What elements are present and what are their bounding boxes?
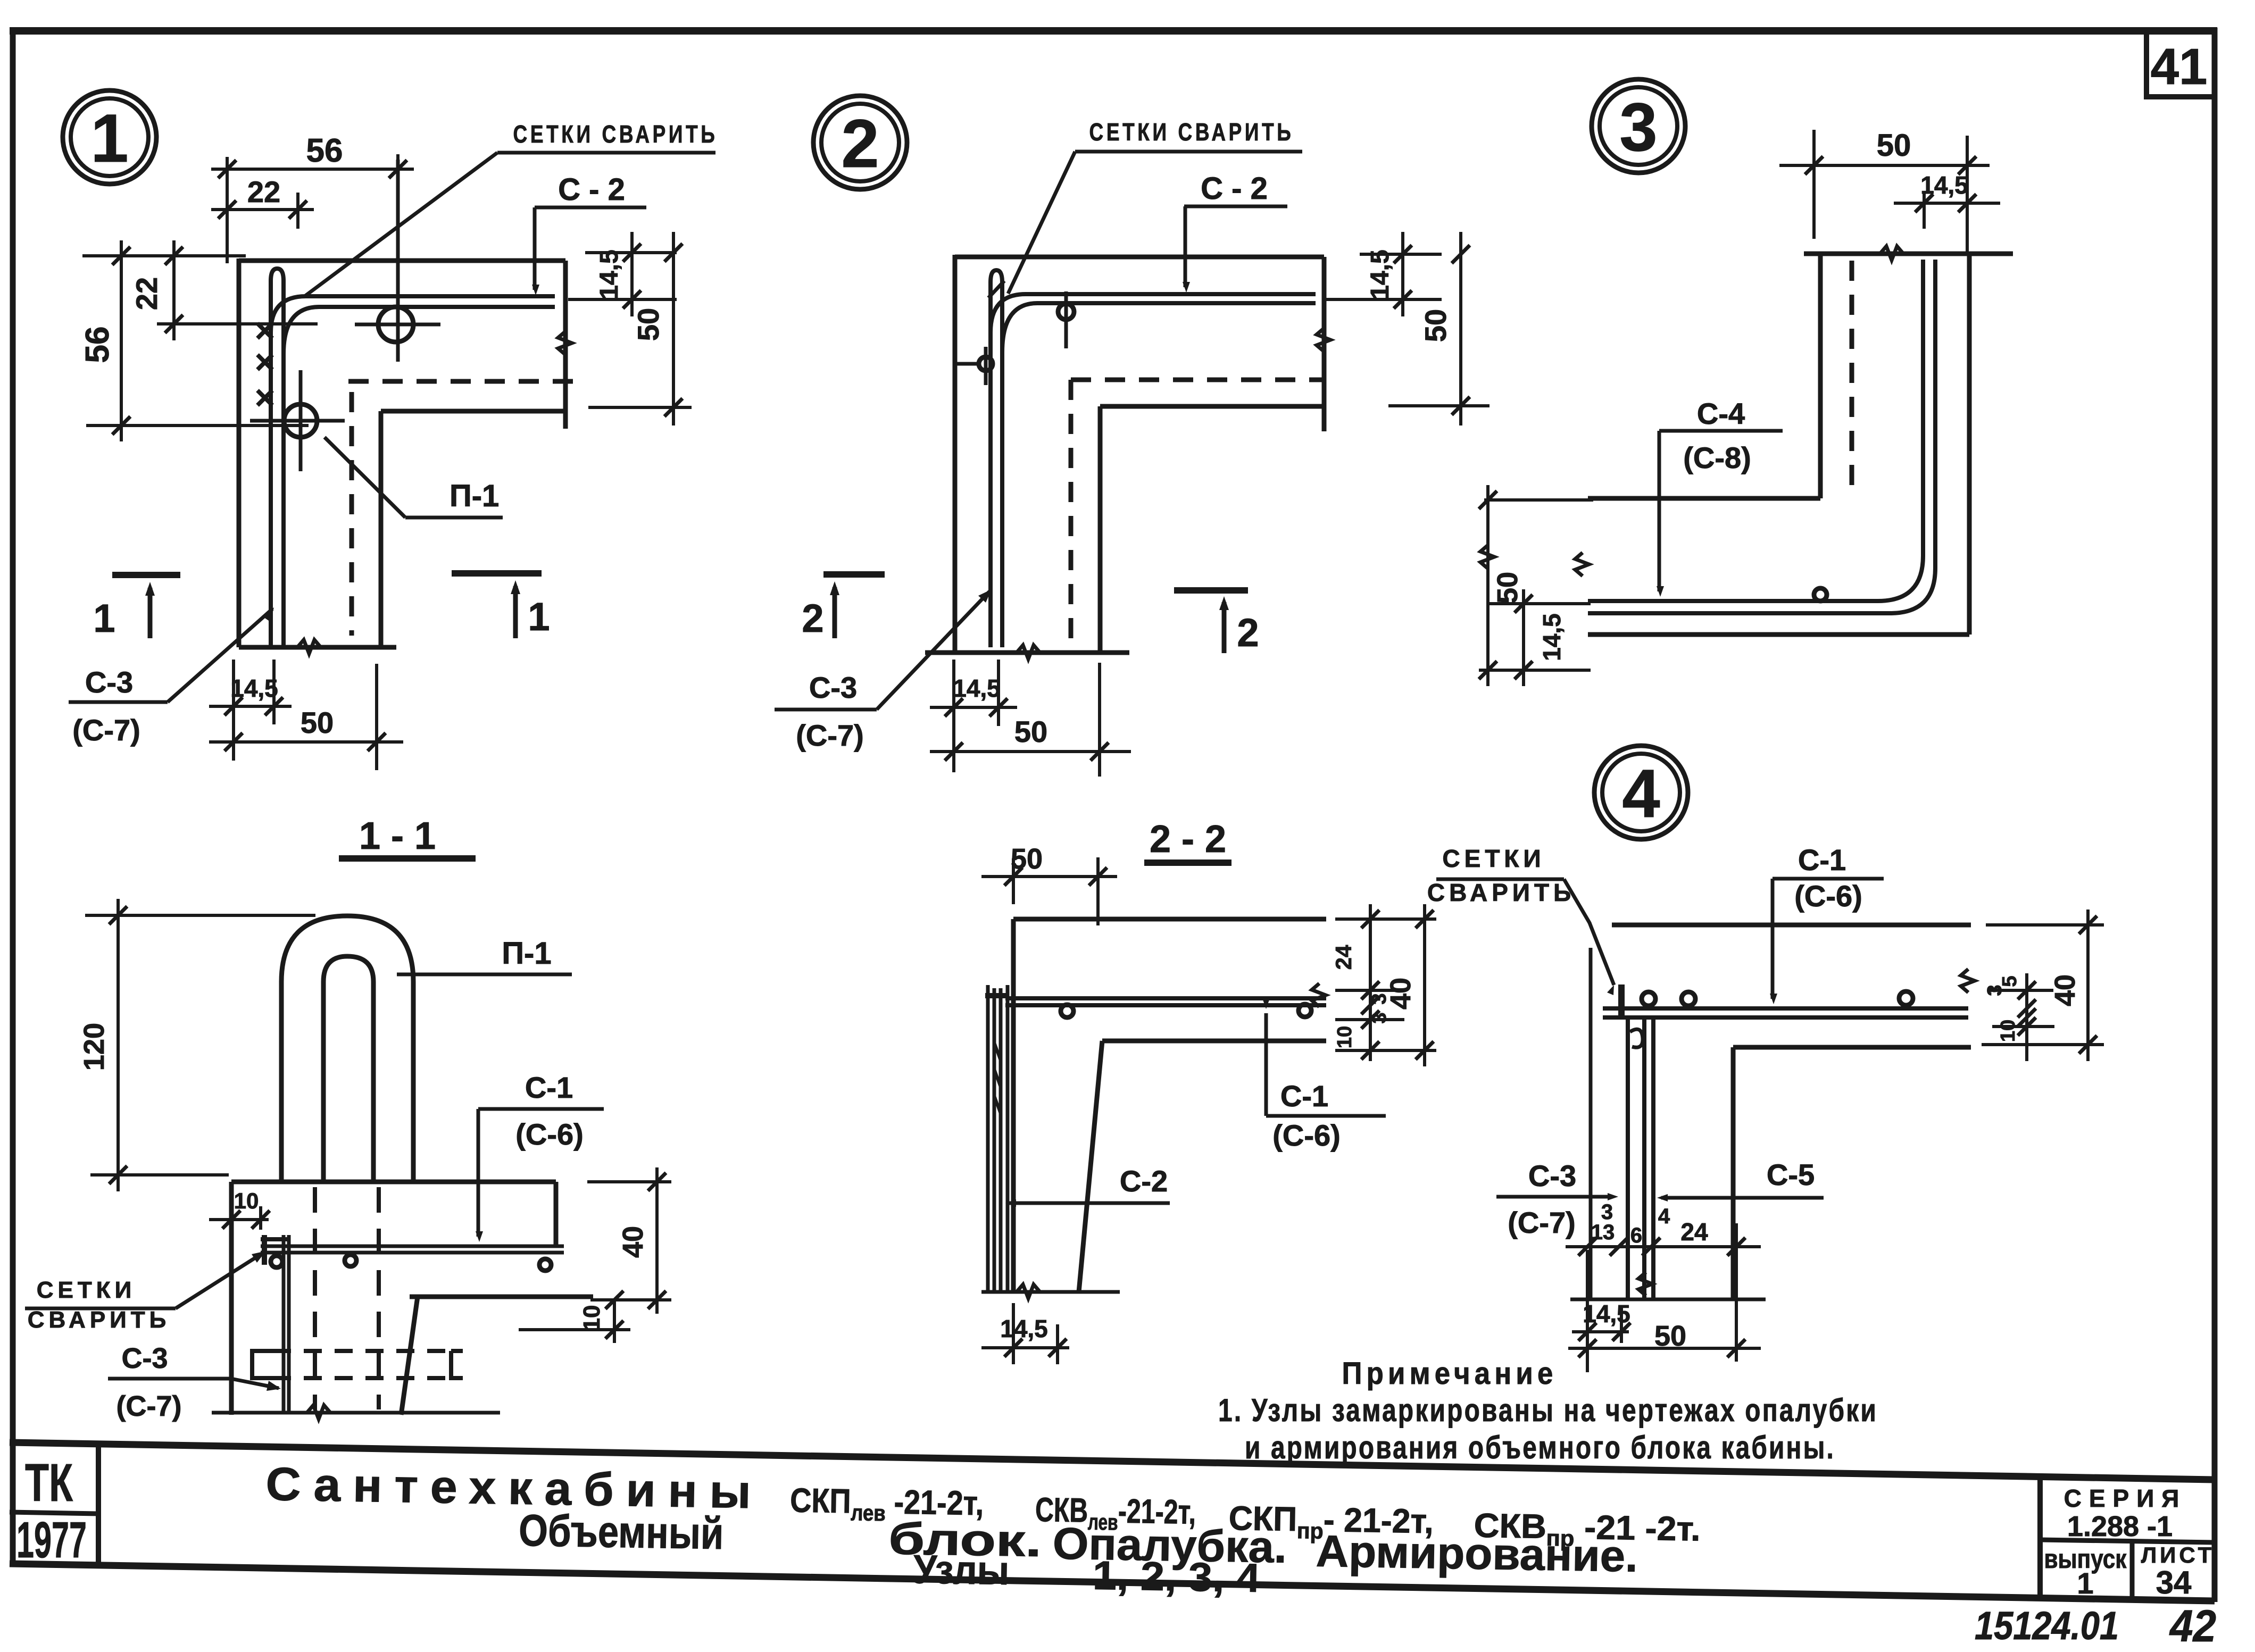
svg-text:С-5: С-5 (1767, 1158, 1815, 1191)
node 1 wall bottom break mark (297, 640, 321, 654)
svg-text:2: 2 (802, 596, 823, 640)
dimension 14.5 vertical right, node 2 (1360, 253, 1442, 256)
svg-text:40: 40 (617, 1226, 649, 1258)
node 2 wall bottom edge (925, 650, 1129, 655)
dimension 40 right, section 1-1 (587, 1180, 671, 1183)
svg-text:3: 3 (1368, 1012, 1391, 1023)
dimension 14.5 bottom, node 2 (952, 660, 955, 772)
weld circle on mesh C-2, node 1 (378, 307, 413, 342)
bundle bottom break mark, node 4 (1638, 1272, 1652, 1296)
node 2 wall inner corner horizontal edge (1100, 404, 1324, 409)
mesh C-1 horizontal pair, section 2-2 (1005, 996, 1326, 1000)
hidden mesh dashed lines, node 2 (1071, 378, 1324, 382)
hidden mesh dashed corner line, node 1 (348, 379, 580, 384)
title block bottom line (10, 1564, 2215, 1601)
section mark 2 right, node 2 (1174, 587, 1248, 594)
title block seriya box divider vertical (2037, 1476, 2043, 1600)
svg-text:(С-6): (С-6) (1272, 1119, 1341, 1152)
node 1 wall inner corner vertical edge (379, 411, 384, 647)
svg-text:ТК: ТК (25, 1453, 73, 1513)
dimension 56 horizontal, node 1 (226, 157, 229, 263)
node 1 wall right edge break mark (558, 331, 572, 355)
svg-text:22: 22 (247, 175, 280, 208)
svg-text:34: 34 (2156, 1565, 2192, 1600)
node 4 slab bottom edge (1733, 1045, 1971, 1050)
weld X marks on hairpin, node 1 (257, 323, 272, 338)
svg-text:41: 41 (2151, 38, 2208, 95)
svg-text:50: 50 (631, 308, 665, 341)
svg-text:50: 50 (1654, 1320, 1686, 1352)
mesh C-3 vertical pair, section 1-1 (282, 1235, 286, 1414)
node 1 detail circle (63, 90, 156, 184)
dimension 50 bottom, node 2 (1098, 663, 1101, 777)
weld circle on mesh C-4, node 3 (1814, 588, 1827, 601)
svg-text:С-4: С-4 (1697, 397, 1745, 430)
svg-text:14,5: 14,5 (1000, 1315, 1048, 1342)
svg-text:С-3: С-3 (1528, 1159, 1576, 1192)
svg-text:ЛИСТ: ЛИСТ (2141, 1542, 2215, 1567)
svg-text:П-1: П-1 (450, 479, 499, 513)
dimension 14.5 vertical left, node 3 (1490, 602, 1591, 605)
dimension 120 vertical, section 1-1 (85, 914, 315, 917)
wall top edge, section 1-1 (231, 1180, 556, 1184)
svg-text:120: 120 (78, 1023, 110, 1071)
weld circles on mesh, section 1-1 (271, 1256, 282, 1267)
svg-text:14,5: 14,5 (1366, 249, 1394, 299)
svg-text:СВАРИТЬ: СВАРИТЬ (1427, 879, 1575, 906)
svg-text:50: 50 (301, 706, 334, 739)
mesh C-1 horizontal pair, node 4 (1603, 1006, 1968, 1011)
mesh C-2 horizontal pair with corner fillet, node 1 (271, 296, 555, 332)
svg-text:4: 4 (1622, 756, 1660, 832)
svg-text:50: 50 (1011, 843, 1043, 875)
svg-text:2: 2 (1237, 611, 1259, 655)
mesh end hook, section 1-1 (261, 1237, 287, 1241)
node 3 wall bottom edge (1588, 632, 1969, 637)
wall bottom line, section 2-2 (981, 1290, 1120, 1294)
node 3 horizontal wall top edge (1588, 496, 1820, 501)
svg-text:П-1: П-1 (502, 936, 551, 971)
hairpin P-1 inner outline, section 1-1 (323, 956, 373, 1182)
hidden blockout dashed rectangle, section 1-1 (273, 1349, 451, 1353)
svg-text:СЕРИЯ: СЕРИЯ (2064, 1484, 2187, 1512)
svg-text:10: 10 (1334, 1026, 1356, 1048)
svg-text:14,5: 14,5 (1920, 171, 1968, 199)
mesh break mark, section 2-2 (1312, 983, 1326, 1007)
dimension 50 bottom, node 4 (1568, 1347, 1761, 1350)
svg-text:СЕТКИ СВАРИТЬ: СЕТКИ СВАРИТЬ (513, 120, 718, 148)
wall inner slanted face, section 2-2 (1079, 1041, 1102, 1292)
svg-text:6: 6 (1630, 1224, 1642, 1247)
svg-text:1, 2, 3, 4: 1, 2, 3, 4 (1092, 1553, 1260, 1601)
node 3 wall right edge (1967, 254, 1972, 635)
node 4 wall inner vertical edge (1731, 1047, 1736, 1299)
svg-text:14,5: 14,5 (953, 674, 1001, 702)
svg-text:С-1: С-1 (1280, 1079, 1328, 1113)
hairpin bend circle in bundle, node 4 (1630, 1029, 1643, 1047)
hairpin P-1 outer outline, section 1-1 (281, 916, 413, 1182)
svg-text:С - 2: С - 2 (1201, 171, 1268, 206)
svg-text:1: 1 (528, 595, 550, 639)
node 2 wall bottom break mark (1017, 645, 1040, 659)
mesh C-3 / hairpin vertical pair, node 2 (991, 270, 1002, 647)
node 1 wall left edge (237, 258, 242, 647)
node 4 bottom line (1570, 1298, 1766, 1301)
weld circles on mesh C-1, section 2-2 (1061, 1005, 1074, 1017)
node 1 wall inner corner horizontal edge (381, 409, 565, 414)
mesh C-3 / C-5 vertical bundle, node 4 (1626, 1017, 1630, 1299)
svg-text:3: 3 (1619, 89, 1657, 165)
wall bottom break mark, section 1-1 (307, 1405, 330, 1419)
svg-text:4: 4 (1658, 1205, 1670, 1228)
node 4 detail circle (1594, 746, 1688, 839)
svg-text:С - 2: С - 2 (558, 172, 625, 207)
svg-text:и армирования объемного бло: и армирования объемного блока кабины. (1245, 1430, 1835, 1465)
small dims 24 3 3 10 right, section 2-2 (1369, 904, 1372, 1061)
svg-text:СЕТКИ СВАРИТЬ: СЕТКИ СВАРИТЬ (1089, 118, 1294, 146)
slab bottom edge, section 1-1 (410, 1295, 593, 1299)
svg-text:10: 10 (579, 1305, 605, 1331)
svg-text:1. Узлы замаркированы на че: 1. Узлы замаркированы на чертежах опалуб… (1218, 1392, 1878, 1428)
node 4 wall top edge (1612, 923, 1971, 928)
node 3 wall top edge break mark (1880, 246, 1903, 260)
dimension 10 right, section 1-1 (519, 1328, 630, 1331)
node 3 horizontal wall left break mark (1575, 553, 1589, 576)
svg-text:14,5: 14,5 (230, 674, 278, 702)
svg-text:Армирование.: Армирование. (1316, 1526, 1638, 1581)
small dims 13 6 24 line, node 4 (1566, 1245, 1761, 1248)
TK year box (96, 1444, 101, 1565)
title block vypusk list divider (2130, 1541, 2135, 1600)
svg-text:10: 10 (1997, 1020, 2019, 1042)
dimension 14.5 top, node 3 (1923, 191, 1926, 229)
bundle lacing marks, section 2-2 (994, 1042, 1001, 1061)
hairpin legs hidden below wall top, section 1-1 (313, 1187, 317, 1409)
node 2 wall top edge (955, 255, 1324, 260)
svg-text:50: 50 (1014, 715, 1047, 748)
dimension 10 top left, section 1-1 (259, 1206, 262, 1230)
svg-text:С-3: С-3 (121, 1342, 168, 1374)
svg-text:15124.01: 15124.01 (1975, 1604, 2119, 1648)
section mark 2 left, node 2 (823, 571, 885, 578)
dimension 40 right, section 2-2 (1335, 917, 1436, 921)
dimension 40 right, node 4 (1986, 923, 2104, 927)
svg-text:3: 3 (1368, 993, 1391, 1004)
svg-text:22: 22 (130, 277, 163, 310)
weld circle on mesh C-3, node 1 (284, 404, 317, 437)
svg-text:Примечание: Примечание (1342, 1356, 1558, 1391)
node 2 wall right edge (1322, 257, 1327, 431)
node 3 vertical wall left edge (1818, 254, 1823, 498)
wall bottom break mark, section 2-2 (1017, 1284, 1040, 1298)
svg-text:1 - 1: 1 - 1 (359, 815, 436, 857)
svg-text:2: 2 (841, 106, 879, 182)
wall inner slanted face, section 1-1 (401, 1297, 418, 1415)
svg-text:1977: 1977 (16, 1512, 87, 1568)
svg-text:С-3: С-3 (85, 665, 133, 699)
hidden dashed line, node 3 (1850, 261, 1854, 490)
dimension 14.5 bottom, node 1 (232, 660, 235, 761)
dimension 50 top, section 2-2 (1012, 858, 1015, 904)
node 1 wall bottom edge (239, 645, 396, 650)
mesh C-3 / hairpin P-1 vertical pair, node 1 (271, 269, 284, 647)
svg-text:(С-6): (С-6) (1794, 879, 1862, 913)
dimension 22 horizontal, node 1 (296, 193, 299, 229)
svg-text:50: 50 (1492, 572, 1524, 604)
svg-text:СВАРИТЬ: СВАРИТЬ (28, 1307, 171, 1333)
svg-text:1: 1 (2077, 1566, 2093, 1600)
dimension 14.5 bottom, section 2-2 (981, 1346, 1069, 1349)
svg-text:(С-6): (С-6) (515, 1117, 584, 1151)
wall inner corner horizontal edge, section 2-2 (1102, 1039, 1326, 1044)
svg-text:Объемный: Объемный (519, 1505, 725, 1558)
left dims break mark, node 3 (1480, 545, 1494, 569)
svg-text:С-1: С-1 (525, 1071, 573, 1104)
mesh end bar, section 2-2 (985, 993, 1009, 998)
node 2 wall right edge break mark (1317, 328, 1330, 352)
svg-text:1: 1 (90, 101, 128, 177)
sheet border frame right (2212, 28, 2218, 1602)
mesh C-2 horizontal pair with fillet, node 2 (991, 294, 1316, 332)
title block top line (10, 1442, 2215, 1480)
node 2 detail circle (813, 96, 907, 189)
svg-text:С-3: С-3 (809, 671, 857, 704)
svg-text:10: 10 (234, 1188, 259, 1213)
mesh C-1 break mark, node 4 (1961, 969, 1975, 992)
mesh C-4 pair with corner fillet, node 3 (1588, 260, 1923, 601)
svg-text:1: 1 (93, 596, 115, 640)
weld hatch on hairpin top, node 2 (988, 281, 1004, 298)
sheet border frame top (10, 27, 2217, 35)
dimension 14.5 vertical right, node 1 (585, 251, 677, 254)
svg-text:(С-7): (С-7) (117, 1390, 182, 1422)
svg-text:СЕТКИ: СЕТКИ (37, 1277, 136, 1303)
small dims 3 5 10 right, node 4 (2025, 973, 2028, 1061)
wall left edge, section 1-1 (229, 1182, 234, 1415)
svg-text:50: 50 (1419, 309, 1452, 342)
dimension 50 vertical right, node 2 (1388, 404, 1490, 407)
dimension 50 vertical left, node 3 (1484, 498, 1593, 502)
svg-text:13: 13 (1591, 1221, 1615, 1244)
sheet border frame left (10, 28, 16, 1564)
svg-text:(С-7): (С-7) (796, 719, 864, 752)
main title line 1 (264, 1457, 1702, 1608)
svg-text:(С-8): (С-8) (1683, 441, 1751, 474)
svg-text:40: 40 (2049, 974, 2081, 1006)
dimension 50 vertical right, node 1 (588, 406, 692, 409)
weld symbol on wall face, node 2 (979, 357, 993, 371)
wall top edge, section 2-2 (1013, 917, 1326, 922)
dimension 50 bottom, node 1 (375, 664, 378, 770)
svg-text:56: 56 (306, 132, 343, 169)
wall right upper edge, section 1-1 (554, 1182, 559, 1246)
svg-text:56: 56 (79, 327, 116, 363)
svg-text:(С-7): (С-7) (1508, 1206, 1576, 1239)
node 3 detail circle (1592, 79, 1685, 173)
weld symbol on mesh C-2, node 2 (1058, 304, 1074, 320)
title block seriya box divider horizontal (2040, 1540, 2215, 1542)
dimension 14.5 bottom, node 4 (1572, 1330, 1629, 1333)
svg-text:14,5: 14,5 (595, 249, 623, 299)
svg-text:Узлы: Узлы (913, 1547, 1009, 1593)
sheet number box 41 (2146, 33, 2215, 97)
svg-text:14,5: 14,5 (1583, 1300, 1630, 1328)
node 2 wall inner corner vertical edge (1098, 406, 1103, 653)
weld circles on mesh C-1, node 4 (1642, 992, 1655, 1006)
dimension 50 top, node 3 (1812, 130, 1816, 239)
svg-text:42: 42 (2169, 1601, 2216, 1651)
section mark 1 right, node 1 (452, 570, 542, 577)
mesh end hook bar, node 4 (1618, 984, 1625, 1017)
mesh C-1 horizontal line, section 1-1 (261, 1245, 564, 1248)
mesh C-3 bundle verticals, section 2-2 (986, 985, 990, 1292)
node 4 wall face extension line (1589, 948, 1593, 1299)
svg-text:С-1: С-1 (1798, 843, 1846, 877)
svg-text:24: 24 (1331, 945, 1356, 970)
svg-text:5: 5 (1999, 975, 2021, 987)
svg-text:2 - 2: 2 - 2 (1150, 818, 1226, 861)
svg-text:(С-7): (С-7) (72, 713, 140, 747)
svg-text:50: 50 (1877, 128, 1911, 163)
wall bottom line, section 1-1 (212, 1411, 500, 1415)
svg-text:14,5: 14,5 (1538, 613, 1566, 661)
node 2 wall left edge (953, 255, 958, 653)
svg-text:1.288 -1: 1.288 -1 (2067, 1511, 2173, 1542)
dimension 56 vertical, node 1 (82, 254, 246, 257)
dimension 22 vertical, node 1 (157, 322, 318, 326)
node 1 wall right edge (563, 261, 568, 429)
section mark 1 left, node 1 (112, 572, 180, 578)
node 3 wall top edge (1804, 252, 2013, 256)
svg-text:24: 24 (1680, 1218, 1708, 1246)
svg-text:СЕТКИ: СЕТКИ (1442, 845, 1545, 872)
svg-text:С-2: С-2 (1120, 1164, 1168, 1198)
node 1 wall top edge (239, 258, 565, 263)
wall left edge, section 2-2 (1011, 919, 1016, 1292)
